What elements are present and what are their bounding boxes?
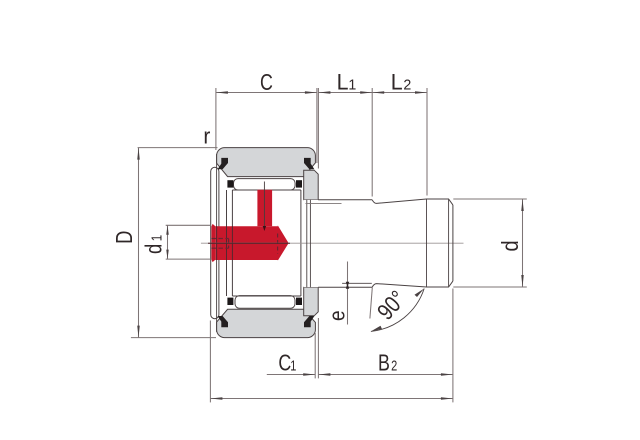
grease flow centerline with small arrow: [263, 182, 265, 228]
dimension L2: line with arrows: [372, 92, 427, 94]
ring left face line: [216, 154, 218, 332]
collar inner vertical lines: [307, 200, 311, 287]
cage end square (top left): [227, 180, 233, 187]
dimension d: line with arrows: [522, 199, 524, 287]
red grease channel horizontal bore with arrowhead: [215, 225, 288, 260]
dimension B2: line with arrows: [318, 374, 453, 376]
svg-text:d: d: [497, 240, 524, 251]
side plate (right, gray, top part): [304, 170, 319, 200]
svg-text:2: 2: [403, 77, 411, 93]
dimension B2: extension lines: [318, 289, 453, 403]
dimension C1: line with arrow: [267, 374, 315, 376]
svg-text:1: 1: [348, 77, 356, 93]
stud relief groove and thread profile (top): [372, 199, 453, 205]
needle roller (top, white capsule): [234, 179, 296, 190]
seal (bottom left, black): [218, 316, 228, 327]
svg-text:C: C: [260, 70, 273, 96]
dimension e: arrows: [346, 283, 349, 289]
dimension d: extension lines: [453, 199, 527, 287]
thread start vertical line: [426, 199, 428, 287]
90 degree arc with arrows: [371, 289, 424, 332]
svg-text:r: r: [203, 124, 210, 149]
dimension d1: extension lines: [166, 225, 211, 259]
svg-text:d: d: [142, 244, 168, 254]
seal (top right, black): [304, 158, 314, 169]
stud relief groove and thread profile (bottom): [372, 281, 453, 287]
svg-text:e: e: [325, 310, 350, 321]
outer ring (top half, gray): [217, 148, 316, 177]
structural lines over red: ring face, shoulders: [217, 226, 233, 260]
dimension L1: extension lines: [318, 88, 372, 197]
dimension L1: line with arrows: [318, 92, 372, 94]
dimension C: extension lines: [216, 88, 317, 163]
thread end chamfer vertical line: [448, 199, 450, 287]
stud raceway shoulder lines: [227, 190, 301, 296]
svg-text:C: C: [278, 350, 291, 376]
dimension C1: extension line: [314, 333, 316, 378]
dimension e: vertical line: [347, 262, 349, 325]
dimension L2: extension line right: [426, 88, 428, 196]
eccentric reference line (bottom): [342, 282, 372, 284]
seal (top left, black): [218, 158, 228, 169]
red grease fitting strip at left face: [211, 224, 215, 262]
centerline dark segment over red: [208, 242, 290, 244]
dimension d1: line with arrows: [167, 225, 169, 259]
cage end square (top right): [296, 180, 302, 187]
90 degree angle leg line: [370, 288, 372, 319]
needle roller (bottom, white capsule): [235, 296, 295, 309]
red grease channel vertical bore: [257, 190, 272, 227]
collar (stud flange, white): [304, 200, 373, 287]
outer ring (bottom half, gray): [217, 309, 316, 337]
hidden bore end (dashed, in arrowhead): [277, 234, 279, 254]
svg-text:L: L: [337, 69, 349, 95]
overall width dimension: line with arrows: [210, 398, 453, 400]
hidden grease bore (dashed): [211, 239, 228, 249]
overall width dimension: extension line left: [209, 321, 211, 403]
svg-text:L: L: [391, 69, 403, 95]
svg-text:1: 1: [148, 235, 165, 242]
eccentric reference line (top): [306, 203, 342, 205]
svg-text:1: 1: [290, 357, 296, 374]
washer (left end, white capsule): [211, 167, 219, 318]
cage end square (bottom left): [227, 298, 233, 305]
stud end face: [452, 205, 454, 281]
cage end square (bottom right): [296, 298, 302, 305]
dimension D: extension lines: [131, 148, 218, 338]
dimension D: line with arrows: [138, 148, 140, 338]
seal (bottom right, black): [304, 316, 314, 327]
side plate (right, gray, bottom part): [304, 287, 319, 316]
raceway (sleeve) lines: [232, 190, 301, 296]
collar outline bottom edge: [318, 286, 372, 288]
dimension C: line with arrows: [216, 92, 317, 94]
svg-text:D: D: [112, 231, 138, 244]
centerline (main axis): [201, 242, 464, 244]
svg-text:2: 2: [391, 357, 397, 374]
svg-text:B: B: [378, 350, 390, 376]
collar outline top edge: [318, 199, 372, 201]
